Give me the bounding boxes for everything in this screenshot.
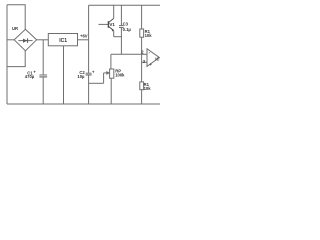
svg-text:V1: V1 <box>109 22 115 27</box>
svg-text:IC: IC <box>155 56 159 61</box>
svg-text:100k: 100k <box>115 72 125 77</box>
svg-text:IC1: IC1 <box>59 38 67 44</box>
svg-text:10k: 10k <box>144 86 152 91</box>
svg-text:UR: UR <box>12 26 18 31</box>
svg-text:10k: 10k <box>145 33 153 38</box>
svg-text:470µ: 470µ <box>25 74 35 79</box>
svg-text:+6V: +6V <box>80 34 88 39</box>
svg-text:0.1µ: 0.1µ <box>123 27 132 32</box>
svg-text:10µ: 10µ <box>77 74 85 79</box>
svg-text:C3: C3 <box>123 22 129 27</box>
